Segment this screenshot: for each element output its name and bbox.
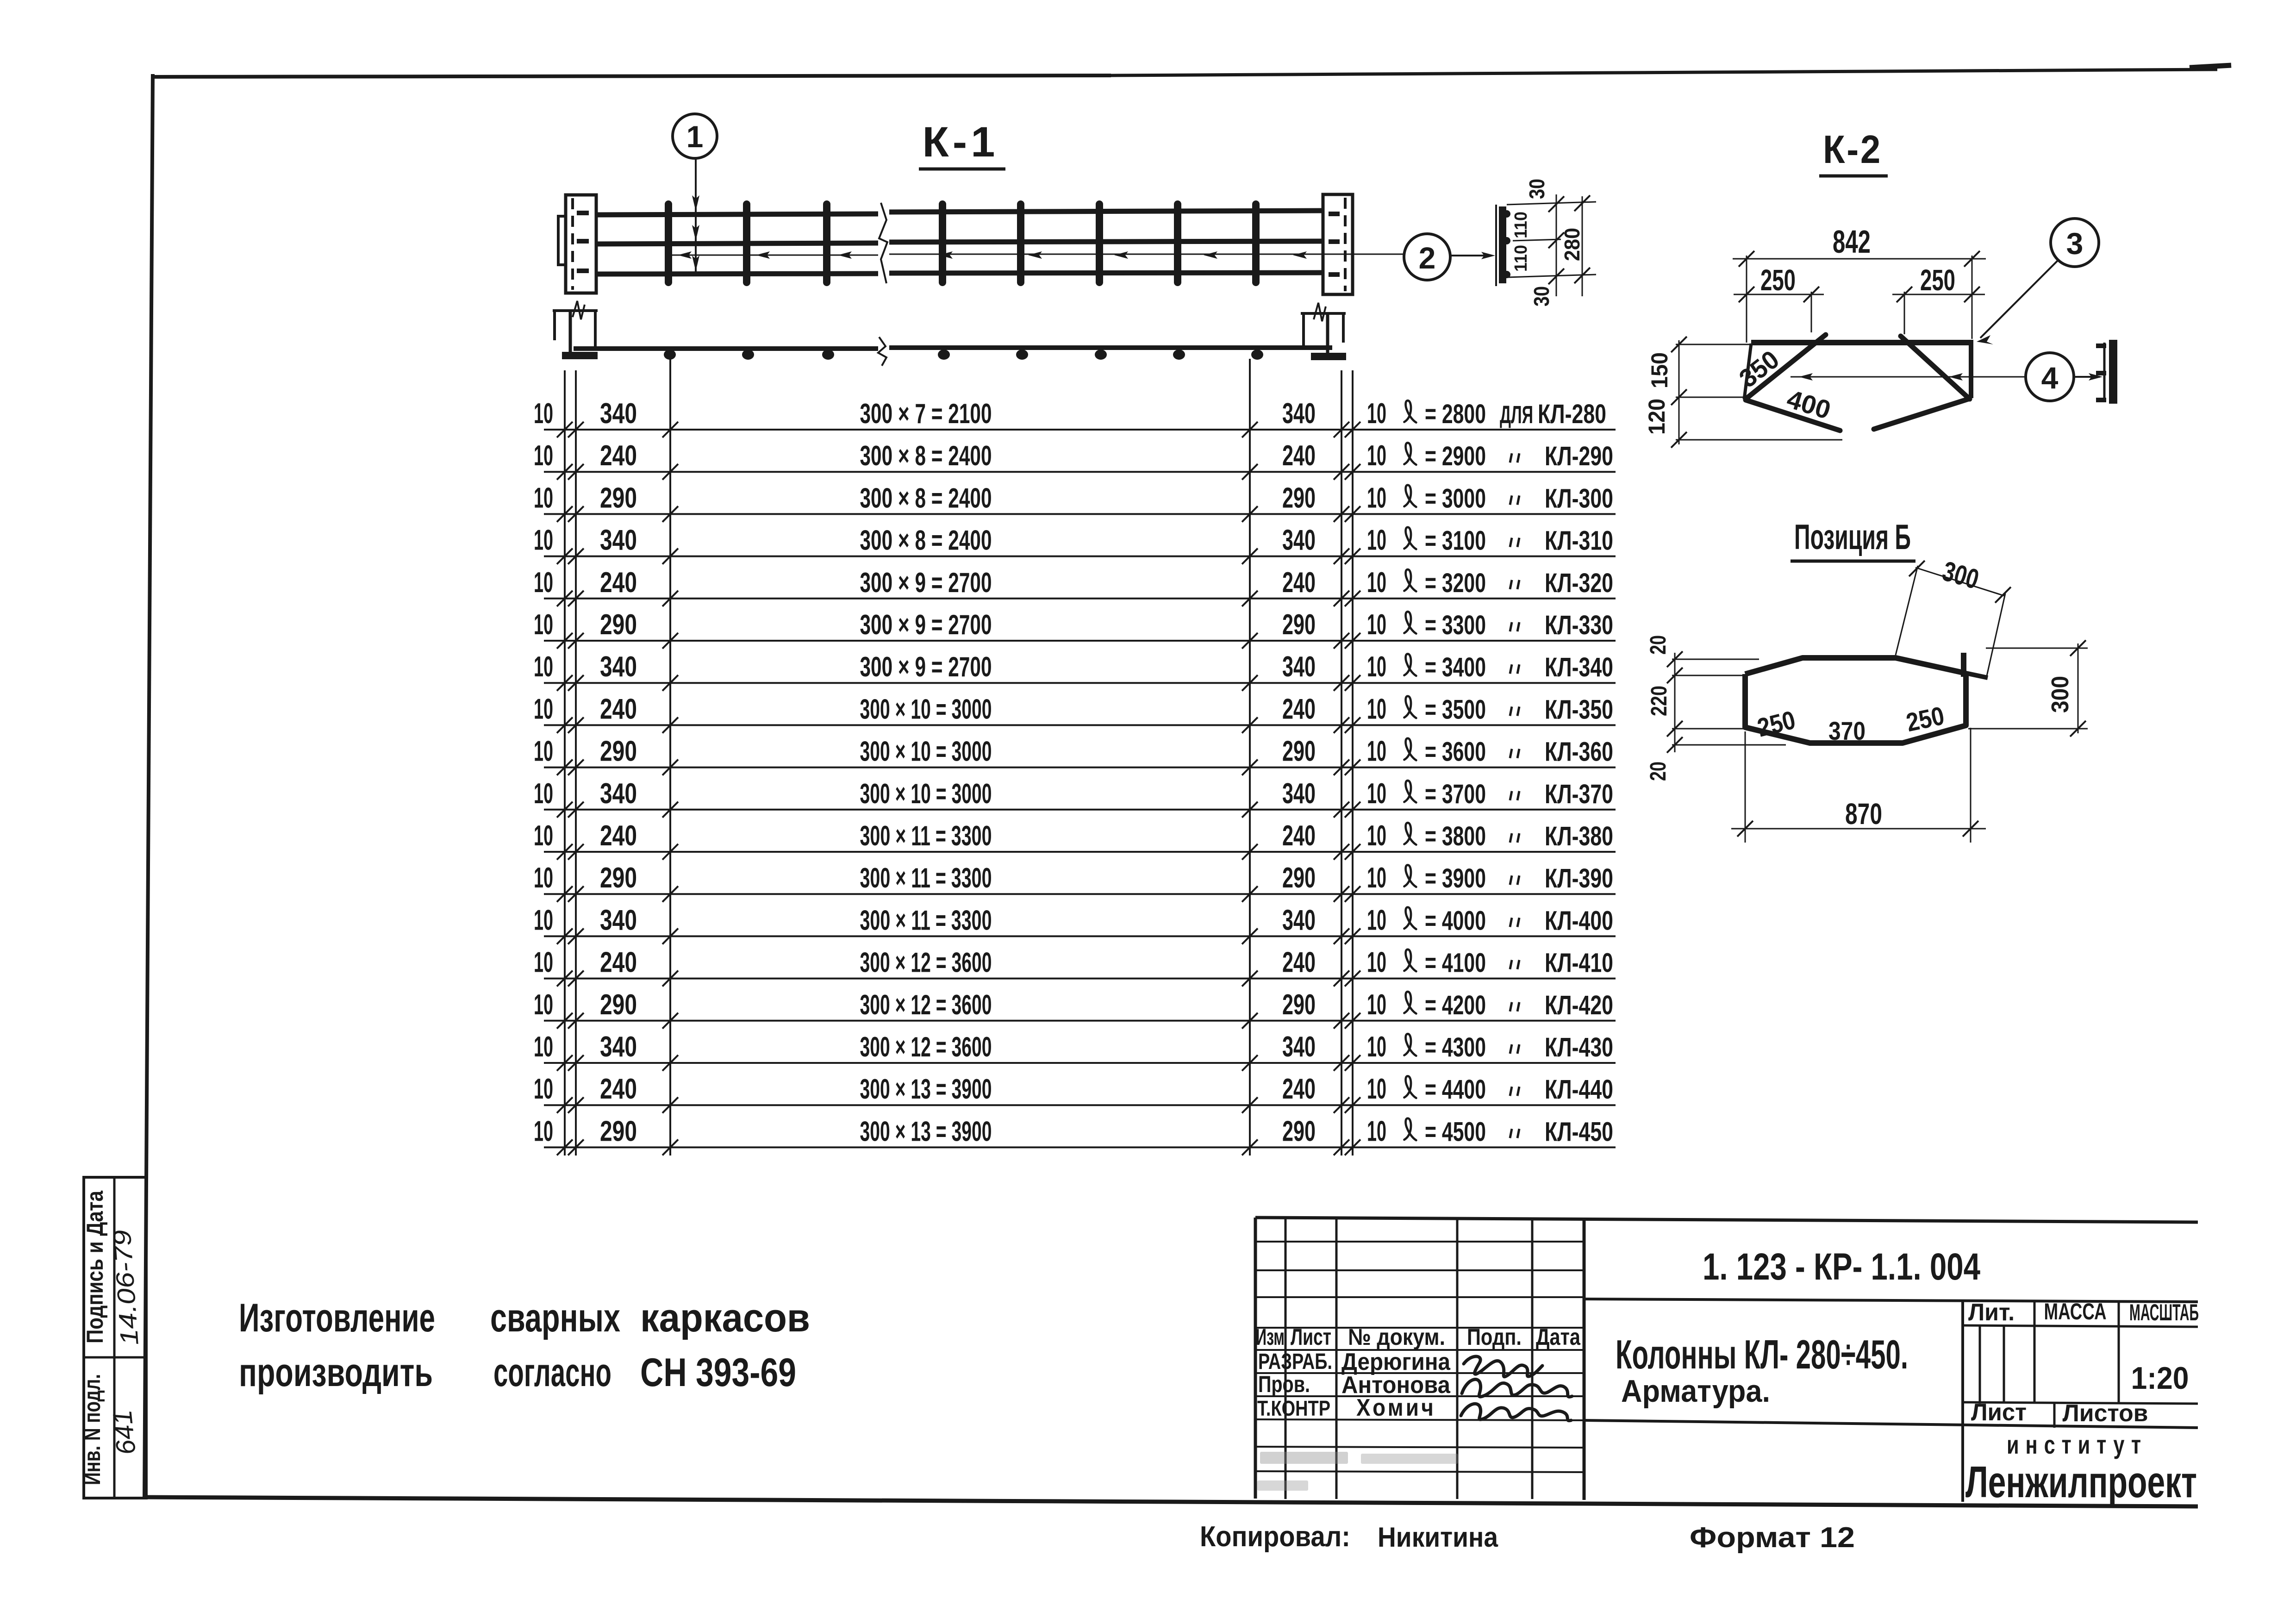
svg-text:КЛ-420: КЛ-420 [1545,990,1613,1020]
line above list row [1963,1402,2198,1404]
plan left channel bracket [553,309,598,312]
svg-text:120: 120 [1644,399,1670,435]
signature 1 [1464,1356,1542,1377]
svg-text:= 4400: = 4400 [1425,1074,1486,1105]
svg-text:340: 340 [1282,1031,1316,1063]
svg-text:К-1: К-1 [923,119,999,166]
svg-text:КЛ-390: КЛ-390 [1545,863,1613,893]
name cell bottom line [1584,1420,2198,1428]
svg-text:30: 30 [1525,179,1549,199]
svg-text:1: 1 [686,119,704,154]
K-2 dim 250 left [1811,292,1812,332]
svg-text:340: 340 [1282,398,1316,430]
svg-text:290: 290 [1282,862,1316,894]
plan right channel bracket [1301,312,1346,315]
table row 7: 340 / 300x9=2700 / ℓ=3400 КЛ-340 [544,682,1616,684]
svg-text:10: 10 [534,609,553,641]
stirrups K-1 [665,204,672,282]
svg-text:110: 110 [1511,212,1531,238]
K-2 diagonal 350 [1746,335,1826,399]
svg-text:2: 2 [1419,241,1436,275]
svg-text:сварных: сварных [490,1296,620,1340]
svg-text:= 3100: = 3100 [1425,526,1486,556]
table row 13: 340 / 300x11=3300 / ℓ=4000 КЛ-400 [544,935,1616,937]
svg-text:10: 10 [1367,567,1386,599]
svg-text:290: 290 [1282,736,1316,768]
K-1 right end plate [1323,194,1353,294]
svg-text:240: 240 [600,440,637,472]
svg-text:институт: институт [2007,1430,2147,1459]
Position B lap end [1961,653,1966,677]
svg-text:10: 10 [534,398,553,430]
svg-text:= 4500: = 4500 [1425,1117,1486,1147]
svg-text:240: 240 [600,567,637,599]
svg-text:КЛ-360: КЛ-360 [1545,737,1613,767]
section dim line 30/110/110/30 [1556,194,1557,296]
svg-text:3: 3 [2066,226,2084,261]
svg-text:240: 240 [600,1073,637,1105]
svg-text:Никитина: Никитина [1378,1522,1498,1553]
table row 10: 340 / 300x10=3000 / ℓ=3700 КЛ-370 [544,809,1616,811]
svg-text:10: 10 [534,1031,553,1063]
svg-text:300 × 8 = 2400: 300 × 8 = 2400 [860,482,992,513]
K-2 dim 250 right [1904,292,1905,334]
svg-text:10: 10 [534,651,553,683]
svg-text:300 × 11 = 3300: 300 × 11 = 3300 [860,862,992,893]
svg-text:290: 290 [1282,482,1316,514]
svg-text:10: 10 [534,820,553,852]
K-2 right edge [1969,340,1973,398]
svg-text:150: 150 [1647,352,1672,388]
svg-text:10: 10 [1367,736,1386,768]
table row 17: 240 / 300x13=3900 / ℓ=4400 КЛ-440 [544,1104,1616,1106]
top chord bar [596,214,878,215]
svg-text:290: 290 [600,482,637,514]
leader circle 4 right [2074,376,2100,378]
callout circle 3 [2051,219,2099,267]
svg-text:290: 290 [1282,609,1316,641]
svg-text:= 3800: = 3800 [1425,821,1486,851]
table row 12: 290 / 300x11=3300 / ℓ=3900 КЛ-390 [544,893,1616,895]
svg-text:Изготовление: Изготовление [239,1296,435,1340]
svg-text:300 × 10 = 3000: 300 × 10 = 3000 [860,693,992,725]
svg-text:10: 10 [1367,651,1386,683]
table row 15: 290 / 300x12=3600 / ℓ=4200 КЛ-420 [544,1020,1616,1022]
bar 2 section: leader [1450,255,1490,256]
table row 8: 240 / 300x10=3000 / ℓ=3500 КЛ-350 [544,724,1616,726]
svg-text:340: 340 [600,525,637,556]
svg-text:280: 280 [1560,228,1584,261]
svg-text:10: 10 [1367,482,1386,514]
section dim line 280 [1582,196,1583,296]
svg-text:Изм: Изм [1256,1324,1285,1350]
svg-text:10: 10 [1367,525,1386,556]
svg-text:= 2800: = 2800 [1425,399,1486,429]
lit/massa/masshtab verticals [2034,1300,2036,1404]
svg-text:Т.КОНТР: Т.КОНТР [1257,1396,1330,1420]
svg-text:Подпись и Дата: Подпись и Дата [82,1190,108,1343]
svg-text:300 × 9 = 2700: 300 × 9 = 2700 [860,651,992,682]
svg-text:10: 10 [534,440,553,472]
svg-text:340: 340 [600,398,637,430]
svg-text:КЛ-330: КЛ-330 [1545,610,1613,640]
table row 11: 240 / 300x11=3300 / ℓ=3800 КЛ-380 [544,851,1616,853]
svg-text:870: 870 [1845,797,1882,831]
svg-text:10: 10 [1367,693,1386,725]
bottom chord bar [596,274,878,274]
table row 2: 240 / 300x8=2400 / ℓ=2900 КЛ-290 [544,471,1616,473]
svg-text:300 × 7 = 2100: 300 × 7 = 2100 [860,398,992,429]
svg-text:240: 240 [600,693,637,725]
svg-text:КЛ-380: КЛ-380 [1545,821,1613,851]
left end protrusion [558,216,567,265]
svg-text:10: 10 [1367,1031,1386,1063]
frame border [153,75,1111,77]
svg-text:240: 240 [600,820,637,852]
svg-text:= 3500: = 3500 [1425,694,1486,725]
right plate dashed axis [1344,198,1347,291]
K-2 shape top bar [1751,340,1972,345]
svg-text:Формат 12: Формат 12 [1690,1522,1855,1554]
middle chord bar [596,243,878,244]
svg-text:300 × 12 = 3600: 300 × 12 = 3600 [860,989,992,1020]
bar 2 leader line [667,255,878,256]
svg-text:20: 20 [1646,762,1671,781]
svg-text:10: 10 [1367,1073,1386,1105]
svg-text:1:20: 1:20 [2131,1361,2189,1396]
rev table horizontals [1255,1241,1584,1243]
callout circle 2 [1404,234,1450,280]
lit subcells [1979,1325,1981,1404]
svg-text:РАЗРАБ.: РАЗРАБ. [1258,1349,1332,1374]
svg-text:К-2: К-2 [1823,128,1882,172]
K-2 left slant edge [1744,344,1751,399]
table row 6: 290 / 300x9=2700 / ℓ=3300 КЛ-330 [544,640,1616,642]
svg-text:240: 240 [600,947,637,979]
svg-text:250: 250 [1760,263,1796,297]
svg-text:240: 240 [1282,820,1316,852]
svg-text:КЛ-300: КЛ-300 [1545,483,1613,513]
signature 3 [1461,1404,1571,1421]
svg-text:КЛ-440: КЛ-440 [1545,1074,1613,1105]
svg-text:Дата: Дата [1536,1324,1581,1350]
svg-text:Лит.: Лит. [1968,1299,2015,1326]
lit massa masshtab header line [1963,1325,2198,1327]
PosB bottom dim 870 [1745,731,1746,843]
svg-text:641: 641 [107,1409,142,1456]
leader circle 3 [1980,260,2058,338]
K-2 dim 150/120 [1678,340,1680,444]
svg-text:240: 240 [1282,1073,1316,1105]
svg-text:300 × 8 = 2400: 300 × 8 = 2400 [860,525,992,556]
svg-text:290: 290 [1282,989,1316,1021]
svg-text:300 × 9 = 2700: 300 × 9 = 2700 [860,609,992,640]
line under doc number [1584,1299,2198,1302]
right plate weld dashes [1329,212,1340,216]
svg-text:290: 290 [600,989,637,1021]
title block outer top [1255,1218,2198,1222]
table row 5: 240 / 300x9=2700 / ℓ=3200 КЛ-320 [544,598,1616,600]
svg-text:Арматура.: Арматура. [1621,1374,1770,1409]
svg-text:300 × 8 = 2400: 300 × 8 = 2400 [860,440,992,471]
K-2 right diagonal 350m [1901,336,1970,399]
svg-text:10: 10 [534,567,553,599]
svg-text:340: 340 [1282,525,1316,556]
svg-text:300 × 10 = 3000: 300 × 10 = 3000 [860,736,992,767]
left plate weld dashes [577,211,589,215]
svg-text:= 4200: = 4200 [1425,990,1486,1020]
svg-text:= 4100: = 4100 [1425,948,1486,978]
svg-text:Колонны КЛ- 280÷450.: Колонны КЛ- 280÷450. [1616,1331,1908,1377]
svg-text:10: 10 [534,862,553,894]
table row 3: 290 / 300x8=2400 / ℓ=3000 КЛ-300 [544,513,1616,515]
svg-text:340: 340 [600,904,637,936]
break mark upper view [879,203,887,283]
svg-text:842: 842 [1833,224,1871,260]
svg-text:КЛ-320: КЛ-320 [1545,568,1613,598]
svg-text:340: 340 [600,778,637,810]
table row 16: 340 / 300x12=3600 / ℓ=4300 КЛ-430 [544,1062,1616,1064]
svg-text:10: 10 [534,904,553,936]
svg-text:10: 10 [1367,398,1386,430]
svg-text:согласно: согласно [493,1350,611,1395]
table row 9: 290 / 300x10=3000 / ℓ=3600 КЛ-360 [544,767,1616,768]
svg-text:КЛ-310: КЛ-310 [1545,526,1613,556]
section dim extension lines [1507,202,1596,205]
svg-text:10: 10 [534,736,553,768]
svg-text:340: 340 [600,651,637,683]
leader circle 4 left [1791,376,2026,378]
svg-text:340: 340 [1282,651,1316,683]
svg-text:= 4000: = 4000 [1425,906,1486,936]
bar 2 section plate [1495,205,1497,286]
svg-text:290: 290 [600,609,637,641]
signature 2 [1462,1380,1572,1397]
K-2 diagonal 400 [1746,400,1840,431]
svg-text:МАСШТАБ: МАСШТАБ [2129,1299,2199,1325]
svg-text:= 3600: = 3600 [1425,737,1486,767]
table extension lines [564,370,566,1156]
svg-text:10: 10 [534,1073,553,1105]
svg-text:КЛ-340: КЛ-340 [1545,652,1613,682]
svg-text:СН 393-69: СН 393-69 [640,1350,796,1395]
svg-text:290: 290 [600,862,637,894]
svg-text:10: 10 [1367,820,1386,852]
svg-text:370: 370 [1828,716,1865,745]
smudged stamp row [1257,1452,1458,1491]
svg-text:Подп.: Подп. [1467,1324,1522,1350]
left plate dashed axis [571,198,574,290]
leader arrows on bar 2 line [678,251,692,259]
svg-text:ДЛЯ: ДЛЯ [1500,401,1533,429]
svg-text:Листов: Листов [2063,1400,2148,1427]
svg-text:= 4300: = 4300 [1425,1032,1486,1062]
svg-text:290: 290 [1282,1115,1316,1147]
svg-text:290: 290 [600,736,637,768]
table row 18: 290 / 300x13=3900 / ℓ=4500 КЛ-450 [544,1146,1616,1148]
svg-text:300 × 12 = 3600: 300 × 12 = 3600 [860,947,992,978]
svg-text:10: 10 [1367,609,1386,641]
svg-text:КЛ-280: КЛ-280 [1538,399,1606,429]
svg-text:10: 10 [1367,862,1386,894]
plan rebar dots [664,350,676,360]
svg-text:КЛ-290: КЛ-290 [1545,441,1613,471]
svg-text:1. 123 - КР- 1.1. 004: 1. 123 - КР- 1.1. 004 [1703,1246,1980,1288]
plan view main bar [574,346,878,351]
svg-text:340: 340 [1282,778,1316,810]
svg-text:30: 30 [1529,286,1554,306]
svg-text:300 × 13 = 3900: 300 × 13 = 3900 [860,1116,992,1147]
pos 4 plate symbol [2103,343,2106,402]
svg-text:250: 250 [1920,263,1955,297]
svg-text:300 × 12 = 3600: 300 × 12 = 3600 [860,1031,992,1062]
svg-text:= 2900: = 2900 [1425,441,1486,471]
svg-text:340: 340 [600,1031,637,1063]
svg-text:240: 240 [1282,693,1316,725]
svg-text:4: 4 [2041,361,2059,395]
svg-text:240: 240 [1282,947,1316,979]
svg-text:Позиция Б: Позиция Б [1794,518,1911,557]
svg-text:240: 240 [1282,567,1316,599]
svg-text:10: 10 [1367,904,1386,936]
svg-text:300 × 10 = 3000: 300 × 10 = 3000 [860,778,992,809]
svg-text:КЛ-370: КЛ-370 [1545,779,1613,809]
svg-text:300: 300 [2047,676,2074,713]
callout circle 4 [2026,353,2074,401]
svg-text:Инв. N подл.: Инв. N подл. [79,1374,105,1485]
table row 4: 340 / 300x8=2400 / ℓ=3100 КЛ-310 [544,556,1616,557]
K-2 dim 842 [1746,256,1747,343]
svg-text:КЛ-450: КЛ-450 [1545,1117,1613,1147]
callout circle 1 [673,114,717,158]
svg-text:10: 10 [1367,440,1386,472]
PosB dim 300 slanted [1896,566,1918,655]
rev table verticals [1254,1218,1257,1499]
svg-text:290: 290 [600,1115,637,1147]
svg-text:= 3300: = 3300 [1425,610,1486,640]
svg-text:= 3200: = 3200 [1425,568,1486,598]
divider name/lit [1961,1300,1964,1502]
svg-text:10: 10 [1367,989,1386,1021]
plan break mark [878,337,886,366]
svg-text:10: 10 [1367,1115,1386,1147]
svg-text:220: 220 [1647,686,1672,716]
svg-text:КЛ-430: КЛ-430 [1545,1032,1613,1062]
table row 14: 240 / 300x12=3600 / ℓ=4100 КЛ-410 [544,978,1616,980]
svg-text:10: 10 [534,1115,553,1147]
svg-text:производить: производить [239,1350,433,1395]
svg-text:300 × 11 = 3300: 300 × 11 = 3300 [860,905,992,936]
svg-text:№ докум.: № докум. [1348,1324,1445,1350]
svg-text:каркасов: каркасов [640,1296,810,1340]
PosB right dim 300 [1986,648,2088,649]
svg-text:20: 20 [1646,635,1671,655]
svg-text:10: 10 [534,525,553,556]
svg-text:300 × 13 = 3900: 300 × 13 = 3900 [860,1074,992,1105]
svg-text:Пров.: Пров. [1258,1371,1310,1397]
svg-text:Лист: Лист [1971,1399,2027,1426]
svg-text:КЛ-410: КЛ-410 [1545,948,1613,978]
leader from circle 1 [695,159,697,272]
sidebar box Inv/Podpis [84,1177,146,1498]
svg-text:= 3900: = 3900 [1425,863,1486,893]
svg-text:КЛ-400: КЛ-400 [1545,906,1613,936]
svg-text:10: 10 [534,482,553,514]
PosB left dims 20/220/20 [1674,653,1676,752]
svg-text:340: 340 [1282,904,1316,936]
K-1 left end plate [566,195,596,293]
bottom frame [144,1497,2198,1506]
svg-text:10: 10 [534,947,553,979]
svg-text:10: 10 [1367,778,1386,810]
svg-text:= 3400: = 3400 [1425,652,1486,682]
svg-text:300 × 11 = 3300: 300 × 11 = 3300 [860,820,992,851]
bar 2 section rebar dots [1503,210,1510,218]
svg-text:110: 110 [1511,245,1531,272]
svg-text:300 × 9 = 2700: 300 × 9 = 2700 [860,567,992,598]
svg-text:= 3000: = 3000 [1425,483,1486,513]
table row 1: 340 / 300x7=2100 / ℓ=2800 КЛ-280 [544,429,1616,431]
svg-text:10: 10 [534,693,553,725]
svg-text:10: 10 [534,778,553,810]
Position B stirrup outline [1745,658,1966,743]
svg-text:Ленжилпроект: Ленжилпроект [1965,1457,2197,1507]
svg-text:КЛ-350: КЛ-350 [1545,694,1613,725]
svg-text:Копировал:: Копировал: [1200,1521,1350,1553]
svg-text:10: 10 [1367,947,1386,979]
svg-text:= 3700: = 3700 [1425,779,1486,809]
svg-text:МАССА: МАССА [2044,1299,2107,1324]
K-2 right diagonal 400m [1874,399,1968,429]
svg-text:Лист: Лист [1291,1324,1331,1350]
svg-text:Хомич: Хомич [1356,1394,1436,1421]
svg-text:10: 10 [534,989,553,1021]
svg-text:240: 240 [1282,440,1316,472]
